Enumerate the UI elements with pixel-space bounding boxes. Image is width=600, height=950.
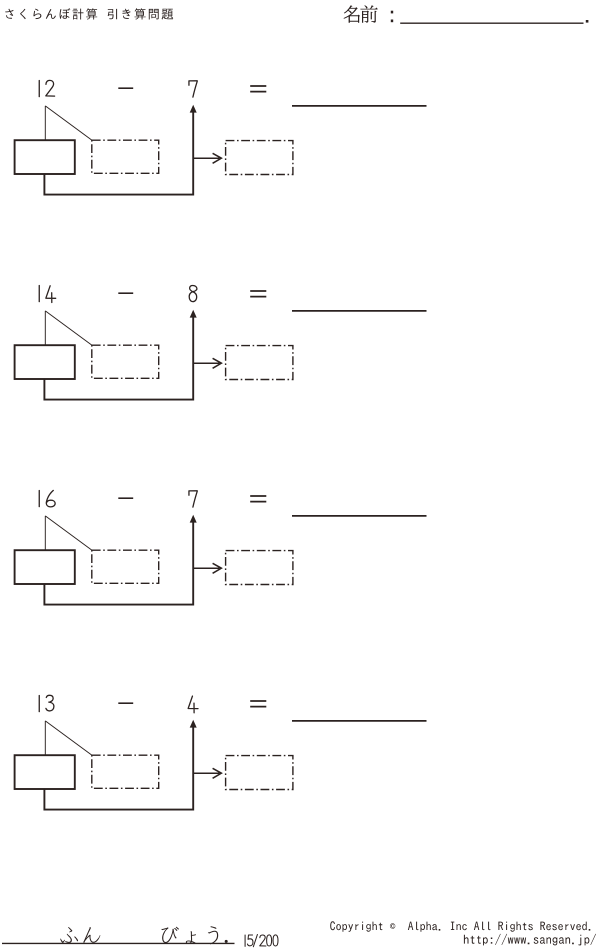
- problem 1: minus sign: [118, 87, 133, 89]
- copyright line 1: [330, 921, 590, 931]
- footer period: [225, 940, 228, 943]
- header title さくらんぼ計算 引き算問題: [5, 8, 173, 20]
- footer label びょう: [161, 926, 218, 944]
- problem 2: split connector lines: [45, 311, 92, 345]
- problem 3: minuend 16: [39, 490, 55, 506]
- problem 2: minuend 14: [39, 286, 55, 303]
- problem 3: right arrow: [194, 563, 221, 573]
- problem 2: result dashed box: [226, 346, 293, 380]
- problem 2: right arrow: [194, 358, 221, 368]
- problem 3: subtrahend 7: [189, 491, 197, 507]
- problem 3: wire from box with up arrow: [44, 515, 196, 605]
- problem 1: solid box: [15, 140, 75, 174]
- problem 1: first dashed box: [92, 140, 159, 173]
- problem 1: answer line: [292, 105, 427, 107]
- problem 1: result dashed box: [226, 141, 293, 175]
- problem 2: minus sign: [118, 292, 133, 294]
- problem 2: wire from box with up arrow: [44, 310, 196, 400]
- problem 1: wire from box with up arrow: [44, 105, 196, 195]
- name underline: [400, 22, 583, 24]
- problem 3: answer line: [292, 515, 427, 517]
- problem 4: minus sign: [118, 702, 133, 704]
- footer label ふん: [60, 927, 100, 943]
- problem 4: split connector lines: [45, 721, 92, 755]
- problem 1: split connector lines: [45, 106, 92, 140]
- problem 2: subtrahend 8: [189, 285, 197, 301]
- copyright line 2 url: [464, 934, 596, 946]
- problem 4: right arrow: [194, 768, 221, 778]
- problem 4: wire from box with up arrow: [44, 720, 196, 810]
- period after name underline: [586, 20, 589, 23]
- problem 3: result dashed box: [226, 551, 293, 585]
- name label 名前：: [344, 5, 378, 23]
- problem 4: first dashed box: [92, 755, 159, 788]
- problem 1: subtrahend 7: [189, 81, 197, 97]
- problem 1: minuend 12: [39, 80, 54, 96]
- problem 1: right arrow: [194, 153, 221, 163]
- problem 2: first dashed box: [92, 345, 159, 378]
- problem 3: split connector lines: [45, 516, 92, 550]
- problem 4: subtrahend 4: [188, 696, 198, 713]
- footer time line: [2, 942, 235, 944]
- problem 3: equals sign: [250, 496, 266, 502]
- problem 3: minus sign: [118, 497, 133, 499]
- problem 2: answer line: [292, 310, 427, 312]
- problem 4: solid box: [15, 755, 75, 789]
- problem 2: solid box: [15, 345, 75, 379]
- name colon: [391, 11, 393, 23]
- problem 4: equals sign: [250, 701, 266, 707]
- problem 2: equals sign: [250, 291, 266, 297]
- footer sheet number 15/200: [245, 934, 278, 946]
- problem 4: answer line: [292, 720, 427, 722]
- problem 3: solid box: [15, 550, 75, 584]
- problem 3: first dashed box: [92, 550, 159, 583]
- problem 1: equals sign: [250, 86, 266, 92]
- problem 4: result dashed box: [226, 756, 293, 790]
- problem 4: minuend 13: [39, 695, 54, 711]
